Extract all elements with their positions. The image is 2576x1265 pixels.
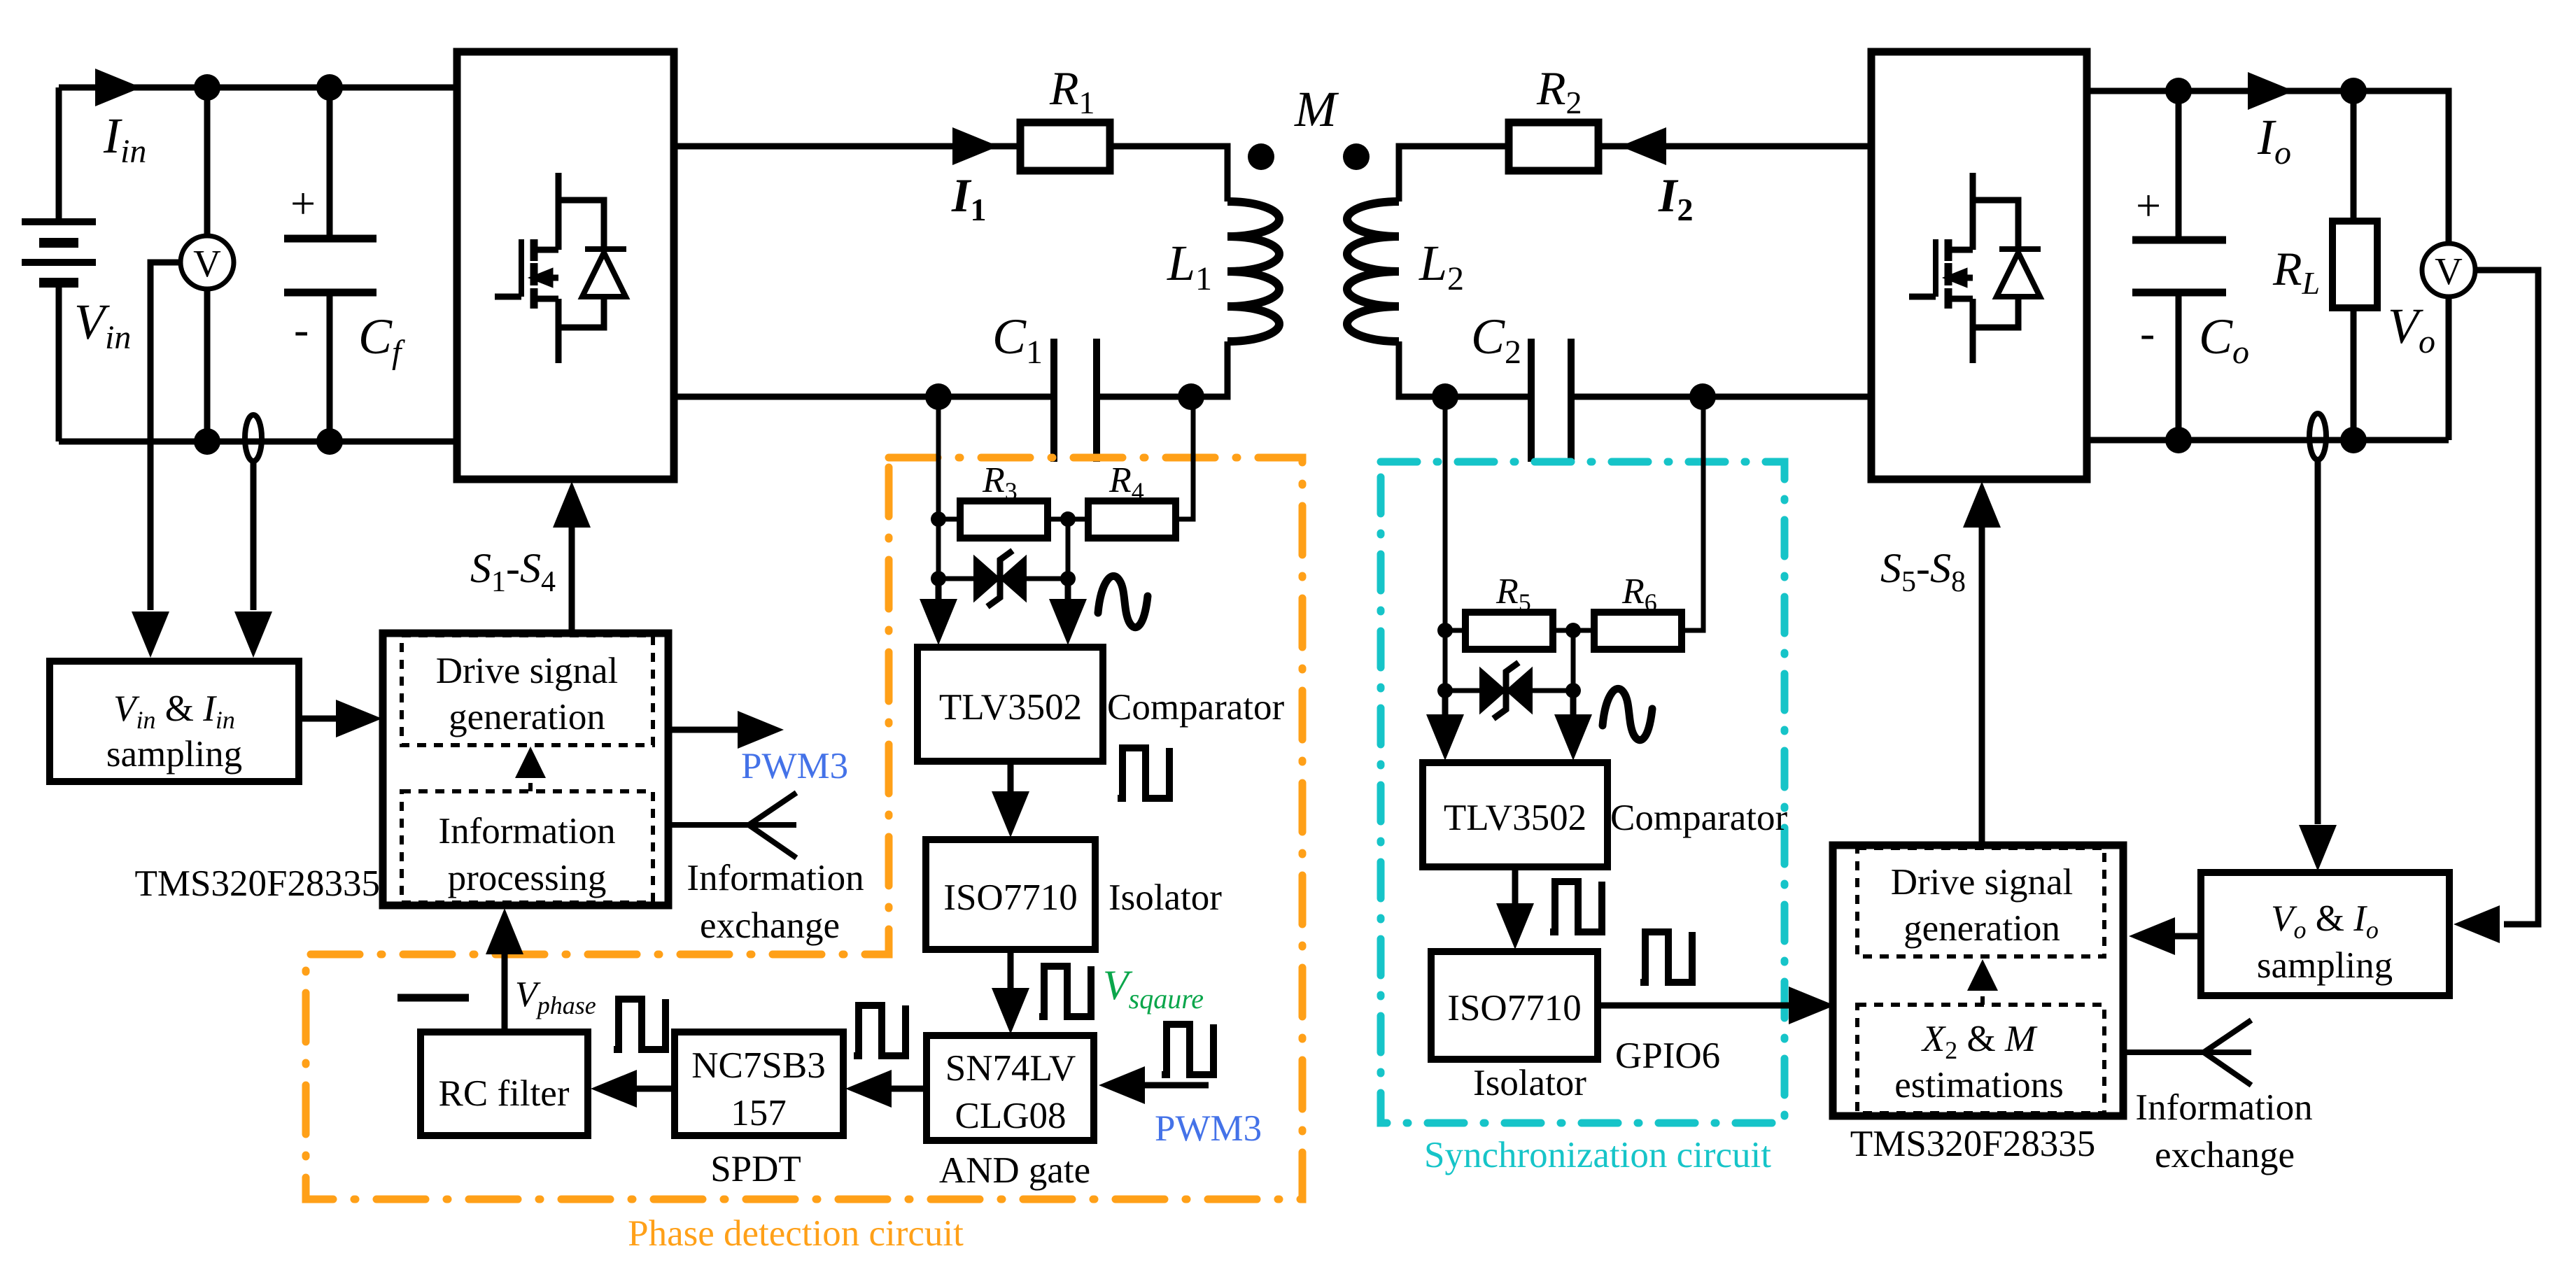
capacitor C1	[1054, 339, 1097, 462]
arrow AND to SPDT	[845, 1070, 892, 1108]
square wave SPDT out	[614, 999, 666, 1050]
wire bottom rail left	[59, 439, 457, 445]
arrow sampling to DSP2	[2129, 917, 2175, 955]
wire TVS row 1	[938, 519, 1068, 579]
wire ISO1 to AND	[1008, 949, 1014, 992]
node TVS left 2	[1437, 683, 1453, 698]
wire Iin sense down	[251, 459, 257, 610]
arrow Iin	[95, 69, 141, 106]
arrow Io	[2248, 72, 2294, 110]
wire GPIO6	[1598, 1003, 1792, 1009]
resistor R6	[1594, 612, 1682, 649]
arrow I2	[1620, 127, 1666, 165]
dashed arrow estimations to drive 2	[1980, 991, 1985, 1005]
svg-text:157: 157	[731, 1093, 787, 1133]
svg-text:TMS320F28335: TMS320F28335	[135, 863, 380, 904]
wire L2 top	[1399, 146, 1509, 202]
node C2 right	[1689, 383, 1716, 410]
node TVS right 2	[1565, 683, 1581, 698]
DC level bar	[397, 994, 469, 1002]
wire S1-S4 drive	[569, 526, 575, 633]
arrow SPDT to RC	[591, 1070, 637, 1108]
arrow into comparator 1 right	[1049, 599, 1087, 645]
svg-text:sampling: sampling	[106, 734, 242, 775]
wire SPDT to RC	[635, 1086, 675, 1092]
node TVS right 1	[1060, 571, 1076, 586]
box Vo Io sampling	[2201, 872, 2449, 996]
svg-text:ISO7710: ISO7710	[943, 877, 1077, 918]
square wave GPIO6	[1640, 932, 1692, 982]
svg-text:SN74LV: SN74LV	[945, 1048, 1076, 1089]
svg-text:M: M	[1294, 81, 1339, 137]
svg-text:exchange: exchange	[700, 905, 840, 946]
capacitor C2	[1531, 339, 1571, 462]
arrow S5-S8 up	[1963, 481, 2001, 528]
arrow Vphase into DSP1	[486, 908, 523, 954]
wire V2 bottom	[2446, 297, 2452, 440]
svg-text:CLG08: CLG08	[955, 1096, 1067, 1136]
wire R4 to C1 right	[1176, 397, 1193, 519]
phase detection circuit outline	[306, 458, 1302, 1199]
node top-A	[194, 74, 220, 101]
inverter bridge 2	[1871, 52, 2087, 479]
sine symbol 2	[1603, 688, 1652, 740]
arrow into comparator 2 left	[1426, 714, 1464, 761]
wire S5-S8 drive	[1979, 526, 1985, 845]
svg-text:ISO7710: ISO7710	[1447, 988, 1581, 1029]
arrow TLV1 to ISO1	[992, 791, 1029, 838]
node RL bottom	[2340, 427, 2367, 453]
isolator ISO7710 box 1	[926, 840, 1095, 949]
node R3 left	[931, 511, 946, 527]
svg-text:TMS320F28335: TMS320F28335	[1850, 1124, 2095, 1164]
wire PWM3 into AND	[1143, 1082, 1209, 1089]
arrow PWM3 into AND	[1099, 1066, 1145, 1104]
node R5-R6 mid	[1565, 623, 1581, 638]
DSP2 box TMS320F28335	[1833, 845, 2123, 1116]
node RL top	[2340, 78, 2367, 104]
arrow into comparator 2 right	[1554, 714, 1592, 761]
inductor L2	[1347, 202, 1399, 341]
wire R3 to R4	[1048, 517, 1088, 522]
node C2 left	[1432, 383, 1458, 410]
svg-text:PWM3: PWM3	[741, 746, 848, 786]
svg-text:-: -	[294, 304, 309, 354]
node TVS left 1	[931, 571, 946, 586]
resistor R4	[1088, 501, 1176, 538]
voltmeter V1	[181, 236, 234, 289]
wire R6 to C2 right	[1682, 397, 1703, 630]
square wave PWM3 in	[1162, 1024, 1213, 1075]
SPDT NC7SB3157 box	[675, 1032, 843, 1136]
svg-text:GPIO6: GPIO6	[1615, 1036, 1720, 1076]
wire C2 to bridge2	[1571, 394, 1871, 400]
capacitor Co	[2132, 91, 2226, 440]
wire PWM3 out	[668, 727, 739, 733]
svg-text:generation: generation	[1903, 908, 2060, 949]
svg-text:estimations: estimations	[1894, 1065, 2063, 1105]
node C1 right	[1178, 383, 1204, 410]
square wave Vsqaure	[1039, 966, 1091, 1017]
current transformer Io	[2309, 414, 2326, 460]
inverter bridge 1	[457, 52, 674, 479]
svg-text:NC7SB3: NC7SB3	[691, 1045, 825, 1086]
svg-text:Synchronization circuit: Synchronization circuit	[1424, 1135, 1771, 1175]
svg-text:Information: Information	[687, 858, 864, 898]
box Vin Iin sampling	[50, 661, 299, 782]
svg-text:Information: Information	[438, 811, 615, 851]
wire Vphase up	[502, 953, 508, 1032]
svg-text:exchange: exchange	[2155, 1135, 2295, 1175]
capacitor Cf	[284, 87, 376, 441]
wire sampling to DSP1	[299, 716, 337, 722]
arrow S1-S4 up	[553, 481, 591, 528]
svg-text:Isolator: Isolator	[1108, 877, 1222, 918]
comparator TLV3502 box 1	[917, 647, 1103, 761]
svg-text:-: -	[2140, 308, 2155, 358]
svg-text:PWM3: PWM3	[1155, 1108, 1262, 1149]
svg-text:TLV3502: TLV3502	[1444, 798, 1586, 838]
wire V2 to corner	[2475, 270, 2538, 924]
node top-B	[316, 74, 343, 101]
svg-text:Comparator: Comparator	[1610, 798, 1787, 838]
voltmeter V2	[2422, 243, 2475, 297]
AND gate SN74LVCLG08 box	[927, 1036, 1094, 1140]
inductor L1	[1227, 202, 1279, 341]
dashed arrow info to drive 1	[528, 778, 533, 791]
RC filter box	[421, 1032, 588, 1136]
node dot secondary	[1343, 143, 1370, 170]
transistor S1	[495, 173, 626, 363]
wire L1 bottom	[1097, 341, 1227, 397]
node dot primary	[1248, 143, 1274, 170]
resistor R5	[1465, 612, 1553, 649]
dashed box information processing	[402, 791, 653, 903]
square wave TLV1 out	[1118, 748, 1169, 798]
svg-text:processing: processing	[448, 858, 607, 898]
svg-text:RC filter: RC filter	[439, 1073, 570, 1114]
wire C1 left to R3	[938, 397, 960, 519]
svg-text:Isolator: Isolator	[1473, 1063, 1586, 1103]
arrow Io sense down	[2299, 825, 2337, 871]
wire TVS row 2	[1445, 630, 1573, 691]
wire down to comparator 2	[1445, 691, 1573, 731]
node C1 left	[925, 383, 952, 410]
wire top rail right	[2087, 91, 2449, 244]
svg-text:X2 & M: X2 & M	[1921, 1019, 2038, 1064]
node Co top	[2165, 78, 2192, 104]
wire R2 to bridge2	[1598, 143, 1871, 150]
dashed box drive signal generation 1	[402, 635, 653, 745]
svg-text:Drive signal: Drive signal	[436, 651, 619, 691]
resistor R1	[1020, 122, 1110, 171]
wire bridge1 to R1	[674, 143, 1020, 150]
wire AND to SPDT	[890, 1086, 927, 1092]
svg-text:Phase detection circuit: Phase detection circuit	[628, 1213, 964, 1254]
current transformer Iin	[245, 415, 262, 461]
dashed box drive signal generation 2	[1857, 848, 2104, 956]
svg-text:Drive signal: Drive signal	[1891, 862, 2074, 903]
node R5 left	[1437, 623, 1453, 638]
node bottom-B	[316, 428, 343, 455]
sine symbol 1	[1098, 576, 1148, 627]
svg-text:Information: Information	[2135, 1087, 2312, 1128]
arrow Vin sense down	[132, 612, 169, 658]
wire R1 to L1	[1110, 146, 1227, 202]
wire sampling to DSP2	[2174, 933, 2201, 940]
wire voltmeter drop	[204, 87, 211, 441]
isolator ISO7710 box 2	[1431, 952, 1598, 1059]
svg-text:SPDT: SPDT	[710, 1149, 801, 1189]
resistor RL	[2332, 91, 2377, 440]
node R3-R4 mid	[1060, 511, 1076, 527]
transistor S5	[1909, 173, 2041, 363]
wire C2 left to R5	[1445, 397, 1465, 630]
svg-text:Vo & Io: Vo & Io	[2271, 898, 2379, 944]
svg-text:sampling: sampling	[2257, 945, 2393, 986]
wire R5 to R6	[1553, 628, 1594, 633]
wire bridge1 bottom to C1	[674, 394, 1054, 400]
square wave AND out	[854, 1005, 906, 1056]
DSP1 box TMS320F28335	[383, 633, 668, 905]
svg-text:+: +	[2136, 181, 2161, 230]
arrow Vo sense	[2454, 905, 2500, 943]
square wave TLV2 out	[1550, 882, 1602, 932]
node Co bottom	[2165, 427, 2192, 453]
wire information exchange 2	[2123, 1020, 2251, 1085]
resistor R2	[1509, 122, 1598, 171]
wire bottom rail right	[2087, 437, 2449, 444]
comparator TLV3502 box 2	[1423, 763, 1607, 867]
wire information exchange 1	[668, 793, 796, 858]
node bottom-A	[194, 428, 220, 455]
arrow TLV2 to ISO2	[1496, 903, 1534, 949]
arrow ISO1 to AND	[992, 988, 1029, 1034]
arrow PWM3 out	[738, 711, 784, 749]
dashed box X2 M estimations	[1857, 1005, 2104, 1113]
TVS diode 1	[975, 551, 1025, 607]
wire Io sense down	[2315, 459, 2321, 824]
svg-text:generation: generation	[449, 697, 605, 737]
battery Vin	[22, 87, 96, 441]
arrow GPIO6 into DSP2	[1789, 987, 1835, 1024]
wire Vin sense tap	[150, 262, 181, 610]
arrow Iin sense down	[234, 612, 272, 658]
arrow into comparator 1 left	[920, 599, 957, 645]
svg-text:AND gate: AND gate	[939, 1150, 1090, 1191]
synchronization circuit outline	[1381, 462, 1785, 1123]
arrow I1	[952, 127, 999, 165]
wire L2 bottom to C2	[1399, 341, 1531, 397]
wire TLV1 to ISO1	[1008, 761, 1014, 798]
TVS diode 2	[1481, 663, 1531, 719]
svg-text:+: +	[290, 178, 316, 228]
wire TLV2 to ISO2	[1512, 867, 1519, 907]
resistor R3	[960, 501, 1048, 538]
svg-text:TLV3502: TLV3502	[939, 687, 1082, 728]
arrow sampling to DSP1	[336, 700, 382, 737]
wire top rail left	[59, 85, 457, 91]
svg-text:Comparator: Comparator	[1107, 687, 1284, 728]
wire down to comparator 1	[938, 579, 1068, 616]
